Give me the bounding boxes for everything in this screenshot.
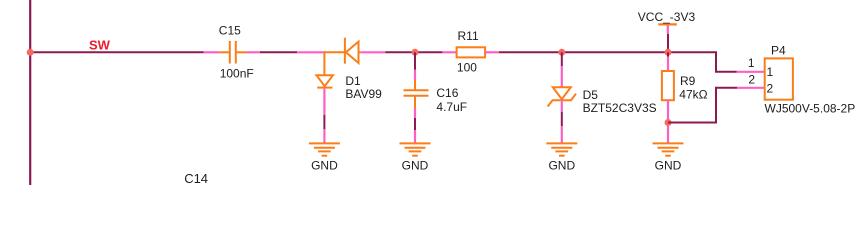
svg-text:C15: C15 [219,24,241,38]
svg-text:WJ500V-5.08-2P: WJ500V-5.08-2P [765,101,856,115]
diode D1 pin 2 [360,51,385,53]
node D5 tap [558,49,565,56]
wire node to D5 [561,52,563,66]
wire R11 to P4 corner [499,52,737,72]
power symbol VCC_-3V3 [658,24,677,34]
svg-text:1: 1 [748,56,755,70]
wire node to R9 [667,52,669,56]
resistor R11 body [457,47,486,57]
connector P4 pin 1 [737,71,765,73]
wire D1 to C16/R11 [385,51,442,53]
zener diode D5 pin 2 [561,100,563,112]
wire C16 to GND [414,118,416,130]
capacitor C16 pin 1 [414,70,416,81]
svg-text:100: 100 [457,61,477,75]
zener diode D5 body [548,87,576,106]
diode D1 pin 3 (down) [323,89,325,115]
diode D1 pin 1 [297,51,324,53]
wire main horizontal segment 1 [30,51,203,53]
svg-text:P4: P4 [771,44,786,58]
svg-text:GND: GND [655,158,682,172]
svg-text:D1: D1 [345,74,361,88]
wire R9 bottom to P4 pin 2 [668,88,737,123]
connector P4 pin 2 [737,87,765,89]
wire VCC to R9 node [667,34,669,52]
resistor R9 pin 1 [667,57,669,72]
capacitor C15 pin 1 [204,51,220,53]
wire D1 to GND [323,115,325,129]
svg-text:GND: GND [402,158,429,172]
svg-text:R11: R11 [458,29,479,43]
ground C16 [400,130,431,172]
svg-text:C16: C16 [436,86,458,100]
wire node to C16 [414,52,416,69]
zener diode D5 pin 1 [561,66,563,87]
wire D5 to GND [561,112,563,126]
svg-text:GND: GND [548,158,575,172]
svg-text:SW: SW [89,37,111,52]
resistor R9 pin 2 [667,100,669,119]
wire C15 to D1 [260,51,297,53]
svg-text:2: 2 [748,73,755,87]
ground D1 [309,129,340,172]
svg-text:VCC_-3V3: VCC_-3V3 [638,10,696,24]
svg-text:C14: C14 [184,171,208,185]
svg-text:R9: R9 [680,74,696,88]
capacitor C15 pin 2 [247,51,260,53]
svg-text:1: 1 [767,65,774,79]
svg-text:2: 2 [767,82,774,96]
node SW junction [27,49,34,56]
ground D5 [546,126,577,172]
resistor R11 pin 1 [442,51,456,53]
svg-text:D5: D5 [583,88,599,102]
capacitor C15 body [219,41,247,64]
resistor R9 body [662,71,674,100]
svg-text:47kΩ: 47kΩ [679,87,707,101]
svg-text:BAV99: BAV99 [345,87,382,101]
svg-text:100nF: 100nF [220,66,254,80]
diode D1 body BAV99 dual diode [317,38,361,88]
connector P4 body [765,58,793,99]
capacitor C16 pin 2 [414,108,416,118]
ground R9 [653,143,684,172]
svg-text:4.7uF: 4.7uF [436,100,467,114]
wire R9 bottom to GND [667,126,669,144]
svg-text:GND: GND [311,158,338,172]
svg-text:BZT52C3V3S: BZT52C3V3S [583,101,657,115]
capacitor C16 body [404,80,429,108]
node R9 bottom junction [665,119,672,126]
resistor R11 pin 2 [485,51,499,53]
wire left vertical bus [29,0,31,185]
node R9 top [665,49,672,56]
node C16 tap [412,49,419,56]
